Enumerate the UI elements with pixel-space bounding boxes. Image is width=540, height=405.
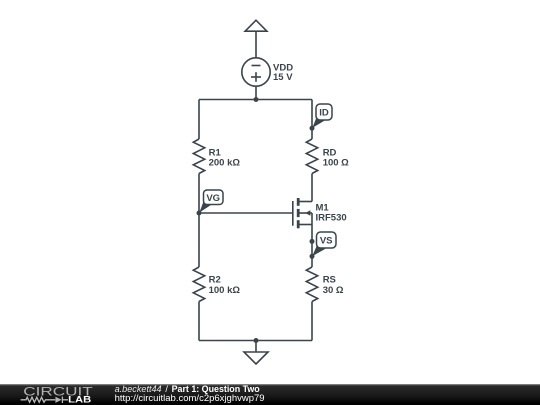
svg-text:ID: ID — [319, 108, 329, 119]
svg-text:RS: RS — [323, 275, 336, 286]
node source junction dot — [310, 239, 315, 244]
wire right rail lower — [311, 302, 313, 341]
svg-text:100 kΩ: 100 kΩ — [209, 285, 241, 296]
node VG junction dot — [197, 211, 202, 216]
svg-text:VG: VG — [206, 193, 220, 204]
wire gate lead — [199, 212, 293, 214]
svg-text:200 kΩ: 200 kΩ — [209, 158, 241, 169]
node VS junction dot — [310, 254, 315, 259]
footer bar — [0, 384, 540, 405]
resistor R2 — [193, 267, 204, 302]
flag ID — [312, 104, 332, 128]
flag VG — [199, 190, 223, 213]
svg-text:30 Ω: 30 Ω — [323, 285, 344, 296]
svg-text:R2: R2 — [209, 275, 221, 286]
resistor RD — [306, 139, 317, 174]
VDD power arrow — [245, 20, 267, 58]
wire left rail upper — [198, 100, 200, 140]
transistor M1 IRF530 — [293, 198, 312, 228]
wire drain lead — [311, 174, 313, 202]
wire source lead — [311, 225, 313, 268]
voltage source V1 VDD 15V — [242, 58, 270, 100]
footer text line 1 — [115, 385, 260, 394]
svg-text:15 V: 15 V — [273, 72, 293, 83]
resistor R1 — [193, 139, 204, 174]
svg-text:VS: VS — [320, 236, 333, 247]
resistor RS — [306, 267, 317, 302]
ground — [244, 341, 268, 365]
node ID junction dot — [310, 126, 315, 131]
wire left rail middle — [198, 174, 200, 268]
wire right rail upper — [311, 100, 313, 140]
wire left rail lower — [198, 302, 200, 341]
CircuitLab logo — [0, 384, 100, 405]
node ground junction dot — [254, 338, 259, 343]
wire top bus — [199, 99, 312, 101]
svg-text:LAB: LAB — [68, 394, 91, 405]
footer text line 2 — [115, 394, 265, 404]
node VDD junction dot — [254, 97, 259, 102]
flag VS — [312, 232, 336, 256]
wire bottom bus — [199, 340, 312, 342]
svg-text:100 Ω: 100 Ω — [323, 158, 349, 169]
svg-text:IRF530: IRF530 — [316, 212, 347, 223]
